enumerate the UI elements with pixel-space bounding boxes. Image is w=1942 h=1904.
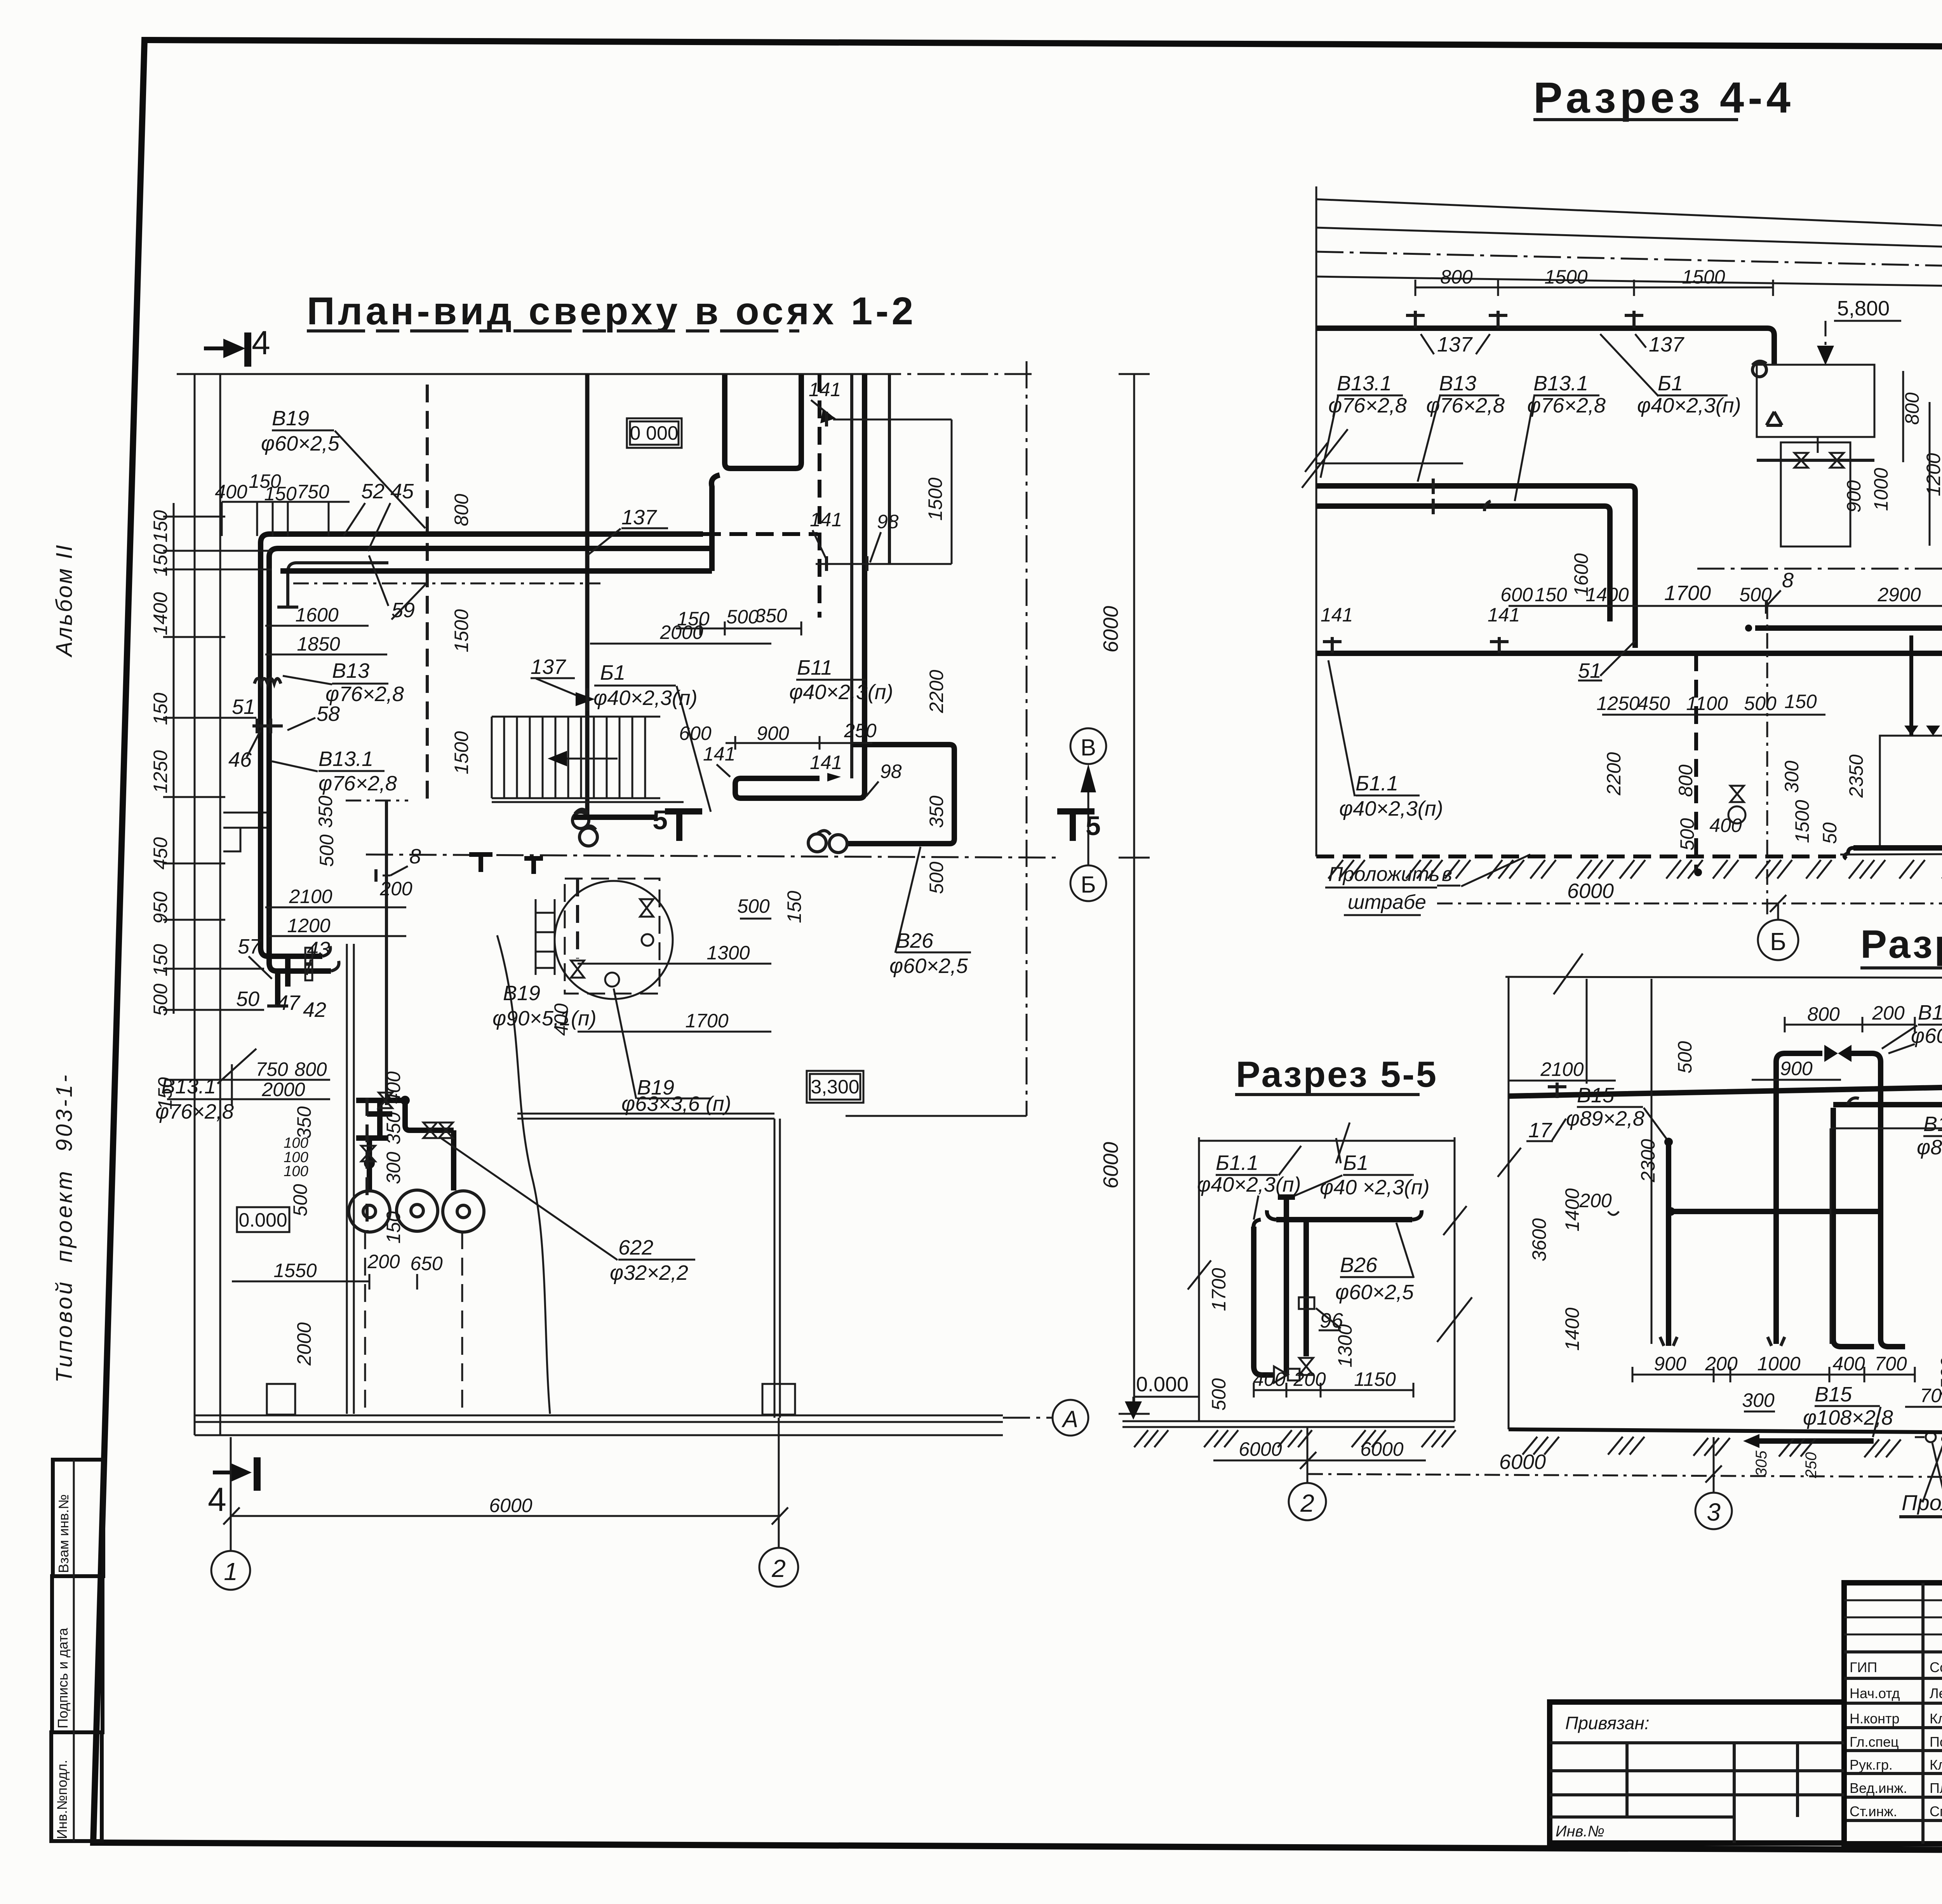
svg-text:1400: 1400 xyxy=(1561,1307,1583,1351)
svg-text:В26: В26 xyxy=(896,929,934,952)
stamp outer box xyxy=(1844,1583,1942,1844)
tank inlet pipes xyxy=(1911,635,1942,736)
left dim tick rows xyxy=(163,517,272,1099)
svg-text:2300: 2300 xyxy=(1637,1139,1659,1182)
small pump circle2 xyxy=(642,934,653,946)
svg-text:Б11: Б11 xyxy=(797,656,832,679)
stamp thin top rows left part xyxy=(1844,1600,1942,1634)
small pump circle xyxy=(605,973,619,987)
svg-text:350: 350 xyxy=(293,1106,315,1139)
svg-text:141: 141 xyxy=(810,509,842,531)
axis circle B bottom xyxy=(1758,920,1798,960)
svg-text:500: 500 xyxy=(316,834,338,867)
svg-text:450: 450 xyxy=(150,837,171,870)
lower dim row xyxy=(1602,714,1825,716)
svg-text:Проложить в штрабе: Проложить в штрабе xyxy=(1902,1490,1942,1515)
svg-text:200: 200 xyxy=(1579,1190,1612,1211)
svg-text:План-вид сверху в осях 1-2: План-вид сверху в осях 1-2 xyxy=(307,289,916,333)
svg-text:φ40×2,3(п): φ40×2,3(п) xyxy=(1339,797,1443,820)
svg-text:Ст.инж.: Ст.инж. xyxy=(1850,1803,1897,1819)
svg-text:1400: 1400 xyxy=(1585,584,1629,606)
top wall xyxy=(177,373,874,375)
corridor wall pair xyxy=(347,944,354,1414)
svg-text:1250: 1250 xyxy=(1596,693,1639,714)
B11 branch pipe xyxy=(1833,1108,1874,1347)
svg-text:250: 250 xyxy=(1803,1452,1820,1479)
svg-text:φ60×2,5: φ60×2,5 xyxy=(261,432,340,455)
svg-text:Клоков: Клоков xyxy=(1930,1757,1942,1773)
floor line 3-3 xyxy=(1509,1429,1942,1437)
svg-text:φ76×2,8: φ76×2,8 xyxy=(1527,394,1606,417)
bottom dim line 4-4 xyxy=(1437,903,1942,905)
interior outline thin xyxy=(1831,1128,1942,1344)
loop pump circles xyxy=(808,834,826,852)
title underline xyxy=(1533,118,1738,121)
main heavy pipe top xyxy=(1509,1083,1942,1241)
upper tank xyxy=(1757,365,1874,437)
heavy pipe bundle outer xyxy=(261,534,703,948)
svg-text:Разрез 4-4: Разрез 4-4 xyxy=(1533,73,1794,122)
svg-text:Лепендин: Лепендин xyxy=(1930,1685,1942,1701)
svg-text:150: 150 xyxy=(783,891,805,923)
bottom dim line 3-3 xyxy=(1307,1474,1942,1480)
svg-text:300: 300 xyxy=(1781,761,1803,793)
manifold valves xyxy=(379,1093,437,1138)
left boundary xyxy=(1508,977,1510,1429)
svg-text:350: 350 xyxy=(755,605,787,627)
svg-text:В: В xyxy=(1081,734,1096,761)
dims 600 900 250 xyxy=(726,736,872,750)
svg-text:51: 51 xyxy=(1578,659,1601,682)
svg-text:В13: В13 xyxy=(1439,372,1476,395)
floor thin xyxy=(1840,853,1942,862)
heavy pipe V13.1 xyxy=(1316,506,1610,621)
svg-text:1250: 1250 xyxy=(150,750,171,793)
bottom wall lines xyxy=(195,1415,1003,1435)
svg-text:46: 46 xyxy=(228,748,252,771)
B19 big pump circle xyxy=(555,881,673,999)
bottom axis line 1 xyxy=(230,1437,232,1551)
svg-text:Привязан:: Привязан: xyxy=(1565,1713,1650,1733)
heavy pipe third horizontal xyxy=(280,568,712,574)
svg-text:900: 900 xyxy=(1843,480,1865,513)
valve hourglass right xyxy=(640,899,653,917)
inner rect xyxy=(1781,442,1850,546)
svg-text:58: 58 xyxy=(317,702,340,726)
svg-text:В13: В13 xyxy=(332,659,369,682)
svg-text:Типовой проект 903-1-: Типовой проект 903-1- xyxy=(52,1072,77,1383)
pipe supports 141 xyxy=(1323,637,1509,653)
stamp row lines xyxy=(1844,1652,1942,1820)
wavy partition curve xyxy=(497,935,550,1414)
bottom small dims xyxy=(1254,1383,1413,1398)
svg-text:Б1.1: Б1.1 xyxy=(1216,1151,1258,1175)
svg-text:450: 450 xyxy=(1637,693,1670,714)
3,300 box xyxy=(810,1074,860,1100)
title block (stamp) xyxy=(1550,1583,1942,1889)
svg-text:141: 141 xyxy=(1321,604,1353,626)
svg-text:φ32×2,2: φ32×2,2 xyxy=(610,1261,688,1284)
svg-text:А: А xyxy=(1061,1406,1078,1432)
feet symbols xyxy=(1660,1337,1785,1346)
stair hatch block xyxy=(492,717,684,802)
svg-text:250: 250 xyxy=(844,720,877,741)
right boundary xyxy=(1454,1137,1456,1421)
svg-text:φ60×2,5: φ60×2,5 xyxy=(1911,1024,1942,1048)
dashed stub xyxy=(576,879,579,959)
svg-text:3,300: 3,300 xyxy=(811,1076,859,1098)
dashed heavy riser xyxy=(818,374,821,618)
shtraba dashed vertical xyxy=(426,385,429,806)
svg-text:350: 350 xyxy=(926,795,947,828)
ceiling dim row xyxy=(1415,280,1773,296)
left margin vertical stamp tables xyxy=(51,543,103,1841)
svg-text:4: 4 xyxy=(252,324,270,362)
ladder symbol xyxy=(536,899,555,975)
axis circle B xyxy=(1070,865,1106,901)
dim 2100 xyxy=(1509,1080,1616,1082)
svg-text:98: 98 xyxy=(880,761,902,782)
ceiling pipe B1 xyxy=(1316,328,1774,365)
svg-text:φ90×5,1(п): φ90×5,1(п) xyxy=(492,1007,597,1030)
svg-text:Б: Б xyxy=(1770,928,1786,955)
left boundary xyxy=(1198,1137,1200,1421)
heavy pipe bundle middle xyxy=(269,548,712,962)
svg-text:φ40×2,3(п): φ40×2,3(п) xyxy=(789,680,893,704)
svg-text:В13.1: В13.1 xyxy=(161,1075,216,1098)
svg-text:137: 137 xyxy=(1437,333,1473,356)
pipe fittings ticks xyxy=(1433,479,1491,514)
mid dim row xyxy=(1509,605,1942,607)
svg-text:1850: 1850 xyxy=(297,633,340,655)
svg-text:5: 5 xyxy=(1086,811,1101,841)
roof line 1 xyxy=(1316,199,1942,242)
heavy horizontal pipe xyxy=(1276,1217,1412,1222)
svg-text:В13.1: В13.1 xyxy=(318,747,373,771)
svg-text:8: 8 xyxy=(409,845,421,868)
svg-text:Н.контр: Н.контр xyxy=(1850,1711,1900,1726)
left broken edge xyxy=(1316,186,1317,856)
plan title underline xyxy=(307,329,799,332)
vertical hook pipe xyxy=(712,475,720,571)
left wall inner line xyxy=(219,374,221,1435)
svg-text:150: 150 xyxy=(150,510,171,543)
flag 17 left xyxy=(1548,1083,1566,1098)
svg-text:Б1: Б1 xyxy=(600,661,625,684)
partition wall vertical xyxy=(585,374,590,817)
dim 1300 xyxy=(578,963,771,965)
dim drop lines xyxy=(1587,979,1942,1459)
svg-text:141: 141 xyxy=(1488,604,1520,626)
svg-text:500: 500 xyxy=(737,895,770,917)
svg-text:Б1.1: Б1.1 xyxy=(1356,772,1398,795)
svg-text:1: 1 xyxy=(224,1558,238,1586)
svg-text:2350: 2350 xyxy=(1845,754,1867,798)
heavy stub at partition base xyxy=(574,815,656,820)
svg-text:6000: 6000 xyxy=(1239,1438,1282,1460)
svg-text:150: 150 xyxy=(150,544,171,576)
arrow between axis circles xyxy=(1088,773,1089,865)
column footing axis2 xyxy=(762,1384,795,1415)
svg-text:150: 150 xyxy=(264,483,297,505)
top wall axis dash extension xyxy=(874,373,1033,375)
interior wall vertical double xyxy=(774,1119,780,1418)
svg-text:φ76×2,8: φ76×2,8 xyxy=(1328,394,1407,417)
svg-text:1200: 1200 xyxy=(287,915,330,936)
svg-text:Плинер: Плинер xyxy=(1930,1780,1942,1796)
svg-text:305: 305 xyxy=(1753,1450,1770,1476)
svg-text:500: 500 xyxy=(1674,1041,1696,1074)
svg-text:Клоков: Клоков xyxy=(1930,1711,1942,1726)
heavy vertical 3 xyxy=(1303,1221,1309,1356)
axis circle 1 xyxy=(211,1551,250,1590)
svg-text:900: 900 xyxy=(1780,1058,1813,1079)
0.000 box plan xyxy=(237,1207,289,1232)
svg-text:1000: 1000 xyxy=(1757,1353,1800,1375)
pump manifold cluster xyxy=(356,1100,454,1190)
svg-text:400: 400 xyxy=(1832,1353,1865,1375)
svg-text:φ76×2,8: φ76×2,8 xyxy=(155,1100,234,1123)
svg-text:1500: 1500 xyxy=(924,477,946,520)
roof axis dash-dot xyxy=(1316,252,1942,274)
svg-text:φ40×2,3(п): φ40×2,3(п) xyxy=(1637,394,1741,417)
right 6000 chain xyxy=(1119,374,1150,1414)
svg-text:2200: 2200 xyxy=(926,670,947,713)
svg-text:Б1: Б1 xyxy=(1343,1151,1368,1175)
svg-text:200: 200 xyxy=(367,1251,400,1272)
left dim chain vertical xyxy=(174,503,232,1105)
svg-text:1300: 1300 xyxy=(1334,1324,1356,1367)
svg-text:0 000: 0 000 xyxy=(630,422,678,444)
bottom axis line 2 xyxy=(778,1418,780,1548)
svg-text:500: 500 xyxy=(1208,1378,1230,1411)
svg-text:900: 900 xyxy=(1654,1353,1686,1375)
svg-text:400: 400 xyxy=(1253,1368,1286,1390)
dim 1850 xyxy=(265,654,387,656)
svg-text:6000: 6000 xyxy=(1099,606,1122,653)
svg-text:57: 57 xyxy=(238,935,262,958)
label 0 000 box top xyxy=(630,421,679,445)
svg-text:1500: 1500 xyxy=(1682,266,1725,288)
privyazan box xyxy=(1550,1702,1844,1843)
svg-text:Взам инв.№: Взам инв.№ xyxy=(56,1494,71,1573)
fork symbol xyxy=(1766,412,1782,425)
svg-text:50: 50 xyxy=(1819,822,1841,844)
svg-text:1100: 1100 xyxy=(1686,693,1728,714)
axis 2 upper dashed vertical xyxy=(1026,361,1028,1116)
svg-text:500: 500 xyxy=(289,1184,311,1217)
expansion wiggles on risers xyxy=(254,679,281,684)
svg-text:1400: 1400 xyxy=(1561,1188,1583,1231)
svg-text:2000: 2000 xyxy=(660,621,703,643)
svg-text:ГИП: ГИП xyxy=(1850,1659,1877,1675)
svg-text:98: 98 xyxy=(877,511,899,533)
svg-text:43: 43 xyxy=(307,938,330,961)
svg-text:Разрез 3-3 к листу 9: Разрез 3-3 к листу 9 xyxy=(1860,922,1942,966)
small circle ref 79 xyxy=(1926,1432,1936,1442)
svg-text:6000: 6000 xyxy=(1499,1450,1546,1474)
svg-text:1700: 1700 xyxy=(1664,581,1711,605)
svg-text:1600: 1600 xyxy=(1570,553,1592,596)
valve on v3 xyxy=(1299,1358,1313,1375)
svg-text:Рук.гр.: Рук.гр. xyxy=(1850,1757,1893,1773)
svg-text:В15: В15 xyxy=(1923,1112,1942,1136)
interior wall lower-right horizontal xyxy=(517,1114,1027,1119)
dims 800 200 xyxy=(1785,1017,1915,1032)
svg-text:8: 8 xyxy=(1782,569,1794,592)
svg-text:47: 47 xyxy=(277,991,301,1015)
svg-text:1500: 1500 xyxy=(1791,800,1813,843)
svg-text:100: 100 xyxy=(284,1163,308,1180)
svg-text:400: 400 xyxy=(1709,815,1742,836)
tee tick cluster xyxy=(252,719,283,733)
svg-text:300: 300 xyxy=(383,1152,404,1184)
svg-text:200: 200 xyxy=(1293,1368,1326,1390)
svg-text:φ40 ×2,3(п): φ40 ×2,3(п) xyxy=(1320,1176,1430,1199)
svg-text:0.000: 0.000 xyxy=(238,1209,287,1231)
svg-text:1600: 1600 xyxy=(295,604,338,626)
svg-text:Вед.инж.: Вед.инж. xyxy=(1850,1780,1907,1796)
svg-text:В13.1: В13.1 xyxy=(1337,372,1392,395)
ground hatch 4-4 xyxy=(1328,860,1942,886)
top dim chain xyxy=(222,502,350,536)
svg-text:500: 500 xyxy=(926,861,947,894)
top dim line xyxy=(1199,1140,1455,1142)
svg-text:400: 400 xyxy=(550,1003,572,1036)
bottom 6000 dim xyxy=(223,1507,788,1525)
svg-text:500: 500 xyxy=(150,983,171,1016)
B19 dashed equipment rect xyxy=(565,879,660,994)
svg-text:150: 150 xyxy=(150,944,171,976)
svg-text:5,800: 5,800 xyxy=(1837,297,1890,320)
valve hourglass left xyxy=(571,961,584,978)
duct dashed verticals xyxy=(365,1231,462,1414)
axis circle 3 xyxy=(1713,1437,1715,1493)
svg-text:137: 137 xyxy=(531,655,566,679)
svg-text:150: 150 xyxy=(150,693,171,725)
pipe riser line xyxy=(385,801,388,1105)
dim 2100 xyxy=(265,907,406,908)
svg-text:6000: 6000 xyxy=(1099,1142,1122,1189)
svg-text:900: 900 xyxy=(757,722,789,744)
svg-text:52 45: 52 45 xyxy=(361,480,414,503)
side table box "Взам инв №" xyxy=(53,1460,103,1576)
svg-text:137: 137 xyxy=(1649,333,1684,356)
svg-text:3: 3 xyxy=(1707,1498,1721,1526)
svg-text:Портной: Портной xyxy=(1930,1734,1942,1750)
svg-text:150: 150 xyxy=(383,1211,404,1244)
svg-text:6000: 6000 xyxy=(489,1495,532,1516)
column footing axis1 xyxy=(267,1384,295,1415)
section5 marker left xyxy=(665,808,702,815)
svg-text:Смирнова: Смирнова xyxy=(1930,1803,1942,1819)
dim 1700 xyxy=(578,1031,771,1033)
svg-text:В15: В15 xyxy=(1918,1001,1942,1024)
svg-text:800: 800 xyxy=(294,1058,327,1080)
svg-text:В19: В19 xyxy=(503,982,540,1005)
svg-text:φ60×2,5: φ60×2,5 xyxy=(1335,1281,1414,1304)
suction dashed pipe xyxy=(365,1098,369,1231)
pump circle top xyxy=(1752,363,1766,377)
heavy vertical 2 xyxy=(1278,1197,1295,1375)
svg-text:500: 500 xyxy=(1744,693,1777,714)
stamp column dividers xyxy=(1923,1583,1942,1844)
svg-text:800: 800 xyxy=(1675,764,1697,797)
svg-text:1300: 1300 xyxy=(706,942,750,964)
floor dashed xyxy=(1316,855,1840,858)
svg-text:300: 300 xyxy=(1742,1389,1775,1411)
side table box "Подпись и дата" xyxy=(52,1576,103,1732)
dims 750 800 2000 xyxy=(232,1080,330,1099)
right dim chain lines xyxy=(816,419,952,564)
hatch 3-3 xyxy=(1523,1437,1942,1482)
branch cluster pipes 42-57 xyxy=(261,948,322,956)
svg-text:141: 141 xyxy=(809,379,841,400)
svg-text:В26: В26 xyxy=(1340,1253,1378,1277)
svg-text:800: 800 xyxy=(1901,392,1923,425)
B1.1 dashed riser xyxy=(1694,653,1698,871)
B11 riser and U pipe xyxy=(735,374,865,798)
svg-text:В15: В15 xyxy=(1577,1084,1615,1107)
svg-text:1500: 1500 xyxy=(451,609,472,652)
svg-text:φ60×2,5: φ60×2,5 xyxy=(889,954,968,978)
roof line bottom xyxy=(1316,277,1942,291)
svg-text:В13.1: В13.1 xyxy=(1533,372,1588,395)
svg-text:Гл.спец: Гл.спец xyxy=(1850,1734,1899,1750)
svg-text:2200: 2200 xyxy=(1603,752,1625,795)
svg-text:1400: 1400 xyxy=(150,592,171,635)
svg-text:350: 350 xyxy=(383,1112,404,1145)
svg-text:1500: 1500 xyxy=(1937,1357,1942,1400)
svg-text:5: 5 xyxy=(653,805,668,835)
svg-text:4: 4 xyxy=(208,1481,226,1518)
svg-text:150: 150 xyxy=(1784,691,1817,712)
thin pipe line xyxy=(1316,463,1463,465)
pump circles row xyxy=(349,1190,484,1232)
heavy vertical 1 xyxy=(1254,1227,1274,1375)
axis circle A xyxy=(1053,1400,1088,1436)
svg-text:59: 59 xyxy=(392,599,415,622)
svg-text:φ40×2,3(п): φ40×2,3(п) xyxy=(1197,1173,1301,1196)
svg-text:750: 750 xyxy=(256,1058,288,1080)
axis A dash line xyxy=(1003,1417,1053,1419)
axis circle V xyxy=(1070,728,1106,764)
B15 horseshoe pipe xyxy=(1776,1053,1905,1347)
svg-text:2100: 2100 xyxy=(289,886,332,907)
svg-text:Инв.№подл.: Инв.№подл. xyxy=(54,1760,70,1839)
svg-text:141: 141 xyxy=(810,752,842,773)
svg-text:Б1: Б1 xyxy=(1658,372,1683,395)
wall niche left xyxy=(223,813,269,851)
side table box "Инв № подл" xyxy=(51,1732,102,1841)
svg-text:φ76×2,8: φ76×2,8 xyxy=(318,772,397,795)
bottom valve triangle xyxy=(1274,1366,1288,1383)
dim 1600 xyxy=(265,625,369,627)
level 2.500 dash line xyxy=(1697,568,1942,570)
svg-text:2100: 2100 xyxy=(1540,1058,1584,1080)
svg-text:800: 800 xyxy=(1807,1003,1840,1025)
svg-text:400: 400 xyxy=(215,481,247,503)
arrow tick on pipe xyxy=(576,692,595,706)
heavy pipe 2500 level xyxy=(1755,628,1942,680)
svg-text:1500: 1500 xyxy=(1544,266,1587,288)
roof line 2 xyxy=(1316,228,1942,258)
U-jog top pipe xyxy=(725,375,801,468)
svg-text:1000: 1000 xyxy=(1870,468,1892,511)
floor lines xyxy=(1122,1421,1455,1427)
svg-text:штрабе: штрабе xyxy=(1348,891,1426,914)
dims 150 500 350 xyxy=(676,621,801,635)
